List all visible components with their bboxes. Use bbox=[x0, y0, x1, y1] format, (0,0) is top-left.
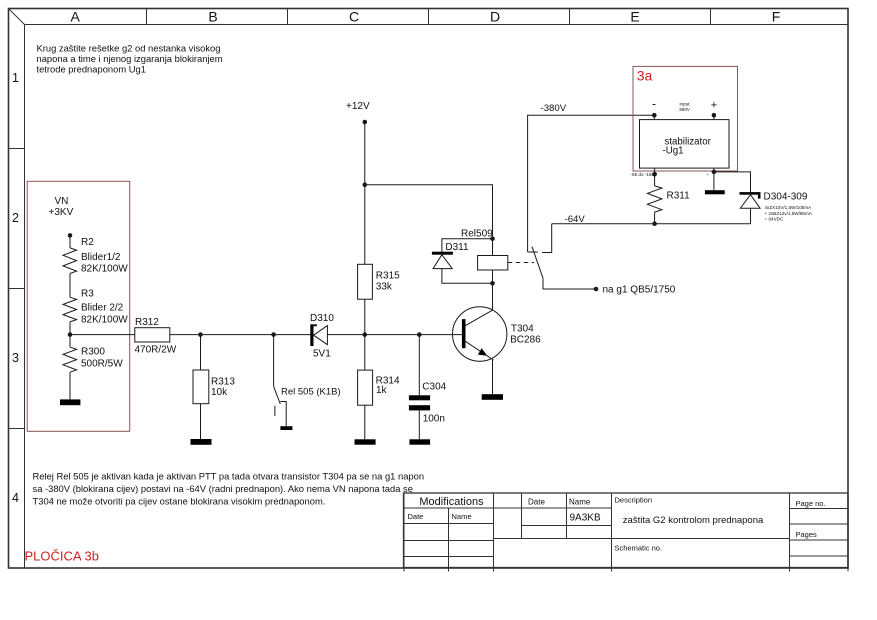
frame top band line bbox=[25, 24, 849, 26]
node R311 at rail bbox=[652, 221, 657, 226]
wire R3 to node bbox=[69, 322, 71, 347]
wire T304 emitter down bbox=[492, 360, 494, 394]
svg-text:Pages: Pages bbox=[796, 530, 818, 539]
diode D304-309 zener tick bbox=[758, 195, 761, 199]
svg-text:1k: 1k bbox=[376, 385, 388, 396]
svg-text:33k: 33k bbox=[376, 282, 393, 293]
svg-text:82K/100W: 82K/100W bbox=[81, 315, 128, 326]
svg-text:F: F bbox=[772, 9, 781, 25]
svg-text:R311: R311 bbox=[667, 191, 691, 202]
wire +12V down to R315 bbox=[364, 122, 366, 264]
ground C304 bbox=[409, 439, 430, 444]
svg-text:Date: Date bbox=[528, 498, 545, 507]
wire +12V branch to relay bbox=[365, 185, 493, 239]
wire box bottom right down bbox=[713, 168, 715, 190]
svg-text:R313: R313 bbox=[211, 377, 235, 388]
resistor R313 body bbox=[193, 370, 209, 404]
svg-text:-: - bbox=[652, 97, 656, 111]
stabilizator block body bbox=[640, 120, 730, 169]
capacitor C304 bottom plate bbox=[409, 405, 430, 410]
wire R314 to ground bbox=[364, 405, 366, 439]
switch upper fixed contact tick bbox=[528, 251, 538, 253]
wire D304 to rail bbox=[750, 208, 752, 224]
wire -64V to switch contact bbox=[542, 224, 552, 253]
wire R315 to rail bbox=[364, 299, 366, 334]
svg-text:napona a time i njenog izgaran: napona a time i njenog izgaranja blokira… bbox=[37, 53, 223, 64]
wire R314 drop bbox=[364, 335, 366, 371]
ground stabilizator plus bbox=[705, 190, 725, 194]
diode D310 cathode bar bbox=[310, 324, 313, 346]
svg-text:sa -380V (blokirana cijev) pos: sa -380V (blokirana cijev) postavi na -6… bbox=[33, 483, 413, 494]
node junction Rel505 bbox=[271, 332, 276, 337]
node stabilizator minus bbox=[652, 113, 657, 118]
node below box left bbox=[652, 172, 657, 177]
svg-text:3a: 3a bbox=[637, 67, 653, 83]
wire relay top to D311 bbox=[442, 239, 493, 252]
switch Rel 505 fixed contact L bbox=[280, 402, 286, 427]
wire plus node to D304 bbox=[714, 172, 751, 192]
node junction C304 bbox=[417, 332, 422, 337]
relay coil Rel509 body bbox=[478, 256, 508, 271]
node +12V terminal bbox=[363, 120, 368, 125]
box VN +3KV (red outline) bbox=[27, 181, 130, 431]
node junction +12V branch bbox=[363, 182, 368, 187]
frame column dividers bbox=[146, 9, 148, 25]
svg-text:380V: 380V bbox=[679, 107, 691, 112]
svg-text:BC286: BC286 bbox=[510, 335, 541, 346]
svg-text:D: D bbox=[490, 9, 500, 25]
node top terminal of R2 chain bbox=[68, 233, 73, 238]
resistor R312 body bbox=[135, 328, 170, 342]
diode D304-309 triangle bbox=[740, 195, 760, 209]
svg-text:Name: Name bbox=[569, 498, 591, 507]
svg-text:-Ug1: -Ug1 bbox=[663, 146, 684, 157]
svg-text:Schematic no.: Schematic no. bbox=[615, 544, 663, 553]
wire box bottom left down bbox=[654, 168, 656, 186]
svg-text:na g1 QB5/1750: na g1 QB5/1750 bbox=[603, 285, 676, 296]
wire coil bottom stub bbox=[492, 270, 494, 283]
svg-text:+3KV: +3KV bbox=[49, 207, 74, 218]
title block outer bbox=[404, 493, 849, 568]
node junction relay bottom bbox=[490, 281, 495, 286]
diode D310 triangle bbox=[314, 326, 328, 345]
svg-text:R3: R3 bbox=[81, 289, 94, 300]
svg-text:-65 do -150V: -65 do -150V bbox=[631, 172, 658, 177]
wire Rel505 drop bbox=[273, 335, 275, 387]
svg-text:5V1: 5V1 bbox=[313, 349, 331, 360]
capacitor C304 top plate bbox=[409, 395, 430, 400]
frame column letters bbox=[71, 9, 781, 25]
svg-text:-: - bbox=[707, 172, 709, 178]
svg-text:Page no.: Page no. bbox=[796, 499, 826, 508]
transistor T304 emitter diagonal bbox=[466, 341, 494, 360]
node below box right bbox=[712, 170, 717, 175]
node na g1 terminal bbox=[594, 287, 599, 292]
svg-text:C: C bbox=[349, 9, 359, 25]
frame left band line bbox=[24, 25, 26, 569]
resistor R3 zigzag bbox=[63, 297, 77, 322]
wire minus into box bbox=[653, 115, 655, 119]
svg-text:R315: R315 bbox=[376, 271, 400, 282]
wire R313 to ground bbox=[200, 404, 202, 439]
wire R2 to R3 bbox=[69, 274, 71, 298]
svg-text:470R/2W: 470R/2W bbox=[135, 345, 177, 356]
wire R300 to ground bbox=[69, 372, 71, 399]
svg-text:Krug zaštite rešetke g2 od nes: Krug zaštite rešetke g2 od nestanka viso… bbox=[37, 43, 221, 54]
transistor T304 base bar bbox=[462, 319, 466, 348]
svg-text:D311: D311 bbox=[445, 242, 469, 253]
wire C304 to ground bbox=[418, 410, 420, 439]
wire R311 to -64V rail bbox=[654, 212, 656, 224]
ground R313 bbox=[191, 439, 212, 445]
svg-text:9A3KB: 9A3KB bbox=[570, 513, 601, 524]
wire top terminal to R2 bbox=[69, 235, 71, 248]
node junction R315 R314 bbox=[363, 332, 368, 337]
frame row numbers bbox=[12, 71, 19, 505]
svg-text:Relej Rel 505 je aktivan kada: Relej Rel 505 je aktivan kada je aktivan… bbox=[33, 471, 425, 482]
svg-text:-380V: -380V bbox=[541, 103, 567, 114]
wire D310 to T304 base bbox=[327, 334, 462, 336]
svg-text:Description: Description bbox=[615, 496, 653, 505]
svg-text:3: 3 bbox=[12, 351, 19, 365]
node junction relay top bbox=[490, 236, 495, 241]
svg-text:R300: R300 bbox=[81, 347, 105, 358]
title block horizontal lines left section bbox=[404, 508, 849, 557]
svg-text:Rel 505 (K1B): Rel 505 (K1B) bbox=[281, 387, 341, 398]
svg-text:+12V: +12V bbox=[346, 101, 370, 112]
diode D311 triangle bbox=[433, 255, 452, 269]
svg-text:Blider 2/2: Blider 2/2 bbox=[81, 303, 124, 314]
svg-text:500R/5W: 500R/5W bbox=[81, 359, 123, 370]
switch Rel 505 blade bbox=[274, 386, 281, 404]
diode D310 zener tick bbox=[314, 324, 318, 326]
svg-text:T304: T304 bbox=[511, 324, 534, 335]
svg-text:C304: C304 bbox=[422, 382, 446, 393]
resistor R2 zigzag bbox=[63, 248, 77, 274]
svg-text:A: A bbox=[71, 9, 81, 25]
box 3a (red outline) bbox=[633, 66, 738, 171]
wire T304 collector up bbox=[492, 283, 494, 310]
note top text block bbox=[37, 43, 223, 75]
resistor R311 zigzag bbox=[647, 186, 662, 212]
svg-text:PLOČICA 3b: PLOČICA 3b bbox=[25, 549, 99, 564]
svg-text:zaštita G2 kontrolom prednapon: zaštita G2 kontrolom prednapona bbox=[623, 515, 764, 526]
node junction R313 bbox=[198, 332, 203, 337]
node stabilizator plus bbox=[712, 113, 717, 118]
node junction R3 R300 R312 bbox=[68, 332, 73, 337]
resistor R314 body bbox=[358, 370, 373, 405]
svg-text:tetrode prednaponom Ug1: tetrode prednaponom Ug1 bbox=[37, 64, 146, 75]
svg-text:E: E bbox=[630, 9, 639, 25]
ground Rel505 bbox=[280, 426, 292, 430]
wire -64V rail bbox=[552, 223, 751, 225]
ground T304 emitter bbox=[482, 394, 503, 400]
resistor R300 zigzag bbox=[63, 347, 77, 372]
wire C304 drop bbox=[418, 335, 420, 396]
svg-text:= 64VDC: = 64VDC bbox=[765, 217, 784, 222]
frame row dividers bbox=[9, 148, 25, 150]
svg-text:10k: 10k bbox=[211, 387, 228, 398]
wire R313 drop bbox=[200, 335, 202, 370]
svg-text:+: + bbox=[711, 100, 717, 112]
title block vertical dividers bbox=[404, 493, 848, 572]
resistor R315 body bbox=[358, 264, 373, 299]
transistor T304 collector diagonal bbox=[466, 310, 494, 326]
svg-text:input: input bbox=[680, 102, 691, 107]
transistor T304 circle bbox=[453, 307, 507, 361]
svg-text:Rel509: Rel509 bbox=[461, 229, 493, 240]
svg-text:D310: D310 bbox=[310, 313, 334, 324]
svg-text:82K/100W: 82K/100W bbox=[81, 264, 128, 275]
ground R314 bbox=[355, 439, 376, 444]
switch Rel 505 open contact tick bbox=[274, 406, 276, 416]
svg-text:R2: R2 bbox=[81, 237, 94, 248]
svg-text:T304 ne može otvoriti pa cijev: T304 ne može otvoriti pa cijev ostane bl… bbox=[33, 496, 326, 507]
diode D311 cathode bar bbox=[432, 252, 453, 255]
svg-text:Blider1/2: Blider1/2 bbox=[81, 252, 121, 263]
svg-text:+ 2xBZ12v/1,5W/86mA: + 2xBZ12v/1,5W/86mA bbox=[765, 211, 813, 216]
svg-text:1: 1 bbox=[12, 71, 19, 85]
svg-text:Date: Date bbox=[408, 512, 424, 521]
switch blade diagonal bbox=[532, 247, 543, 279]
note bottom text block bbox=[33, 471, 425, 507]
frame corner diagonal bbox=[9, 9, 25, 25]
dashed link relay to switch bbox=[508, 262, 534, 264]
ground VN divider bbox=[60, 399, 80, 405]
diode D304-309 cathode bar bbox=[740, 192, 761, 195]
svg-text:4: 4 bbox=[12, 491, 19, 505]
svg-text:Modifications: Modifications bbox=[419, 496, 484, 508]
svg-text:R312: R312 bbox=[135, 317, 159, 328]
wire plus into box bbox=[713, 115, 715, 119]
wire D311 to relay bottom bbox=[442, 269, 493, 284]
svg-text:Name: Name bbox=[452, 512, 472, 521]
svg-text:D304-309: D304-309 bbox=[764, 192, 808, 203]
wire switch output to na g1 bbox=[543, 278, 596, 289]
wire -380V rail bbox=[528, 115, 655, 252]
transistor T304 emitter arrow bbox=[478, 348, 487, 356]
svg-text:100n: 100n bbox=[423, 414, 445, 425]
svg-text:B: B bbox=[208, 9, 217, 25]
wire main rail left (node to D310) bbox=[70, 334, 311, 336]
svg-text:2: 2 bbox=[12, 211, 19, 225]
wire coil top stub bbox=[492, 239, 494, 256]
svg-text:4xZX10V/1,5W/105mA: 4xZX10V/1,5W/105mA bbox=[765, 205, 813, 210]
svg-text:VN: VN bbox=[55, 196, 69, 207]
